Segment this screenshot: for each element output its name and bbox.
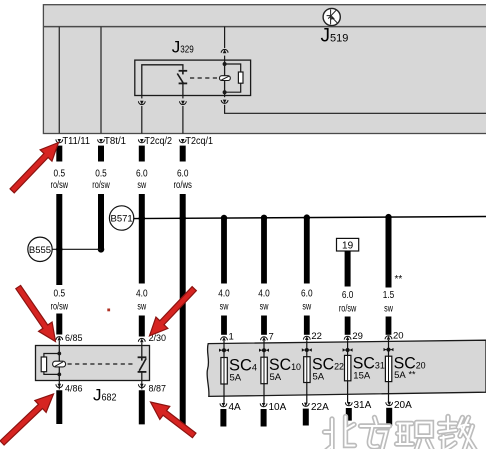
- fuse feed wire SC20: [383, 214, 395, 335]
- J682 coil branch: [41, 346, 61, 381]
- plug connection symbol (circle with arrow): [323, 8, 340, 25]
- red arrow at 4/86: [0, 388, 59, 449]
- svg-text:sw: sw: [137, 302, 146, 313]
- svg-text:4A: 4A: [229, 402, 242, 413]
- svg-text:6/85: 6/85: [65, 333, 83, 344]
- char jiao: [440, 417, 476, 449]
- svg-text:sw: sw: [260, 302, 269, 313]
- wire T2cq/1 long segment: [180, 194, 186, 425]
- svg-text:29: 29: [352, 331, 363, 342]
- char zhi: [397, 423, 433, 449]
- wire T2cq/1 upper segment: [180, 146, 186, 162]
- svg-text:sw: sw: [384, 304, 393, 315]
- fuse SC10: [259, 332, 301, 427]
- svg-text:5A: 5A: [230, 372, 242, 383]
- red arrow at 8/87: [146, 395, 200, 441]
- red arrow at 2/30: [144, 283, 201, 341]
- red dot mark: [107, 309, 110, 312]
- svg-text:ro/ws: ro/ws: [173, 180, 192, 191]
- node circle B555: [28, 237, 101, 261]
- svg-text:8/87: 8/87: [149, 384, 167, 395]
- svg-text:0.5: 0.5: [54, 169, 66, 180]
- connector T11/11: [56, 136, 90, 147]
- svg-text:B571: B571: [111, 214, 133, 225]
- wire to J682/2/30: [139, 316, 145, 337]
- char jiao: [440, 417, 476, 449]
- fuse SC31: [343, 331, 385, 421]
- wire T8t/1 lower segment: [98, 194, 104, 249]
- svg-text:4.0: 4.0: [136, 289, 148, 300]
- svg-text:T8t/1: T8t/1: [104, 136, 126, 147]
- svg-text:ro/sw: ro/sw: [92, 180, 110, 191]
- junction dot bus: [180, 215, 186, 221]
- svg-text:0.5: 0.5: [54, 289, 66, 300]
- J329 switch contact: [142, 65, 187, 96]
- connector T8t/1: [98, 136, 127, 147]
- svg-text:sw: sw: [137, 180, 146, 191]
- svg-text:**: **: [409, 370, 417, 380]
- fuse panel strip: [207, 340, 486, 396]
- fuse SC4: [219, 332, 257, 427]
- svg-text:15A: 15A: [353, 371, 371, 382]
- connector T2cq/2: [138, 136, 172, 147]
- svg-text:sw: sw: [302, 302, 311, 313]
- relay J682 box: [36, 346, 150, 381]
- svg-text:22A: 22A: [311, 402, 329, 413]
- svg-text:T2cq/2: T2cq/2: [145, 136, 173, 147]
- svg-text:6.0: 6.0: [136, 169, 148, 180]
- wire T11/11 middle segment: [56, 194, 62, 285]
- char fang: [361, 418, 390, 449]
- svg-text:31A: 31A: [354, 400, 372, 411]
- char zhi: [397, 423, 433, 449]
- svg-text:T11/11: T11/11: [63, 136, 91, 147]
- watermark bei fang zhi jiao: [325, 417, 476, 449]
- J329 terminal cups below box: [138, 96, 146, 134]
- svg-text:4.0: 4.0: [258, 289, 270, 300]
- char bei: [325, 417, 355, 449]
- svg-text:T2cq/1: T2cq/1: [186, 136, 214, 147]
- J682 terminal 4/86: [56, 381, 83, 395]
- fuse feed wire SC4: [218, 215, 230, 335]
- J329 resistor with parallel loop: [225, 64, 243, 92]
- power rail line inside J519: [43, 26, 486, 28]
- relay J329 box: [135, 60, 251, 95]
- fuse SC20: [384, 331, 426, 426]
- svg-text:ro/sw: ro/sw: [51, 180, 69, 191]
- svg-text:20: 20: [393, 331, 404, 342]
- svg-text:**: **: [395, 274, 403, 285]
- J329 coil feed wire: [223, 60, 227, 95]
- J682 switch contact: [138, 346, 147, 381]
- svg-text:22: 22: [311, 331, 322, 342]
- J682 actuation dashed line: [68, 363, 135, 365]
- fuse SC22: [302, 331, 344, 426]
- J329 output wire to right edge: [220, 96, 486, 114]
- svg-text:6.0: 6.0: [177, 169, 189, 180]
- fuse feed wire SC10: [258, 215, 270, 335]
- svg-text:5A: 5A: [313, 371, 325, 382]
- J682 terminal 2/30: [138, 333, 166, 346]
- fuse feed wire SC31: [339, 251, 357, 335]
- svg-text:ro/sw: ro/sw: [339, 304, 357, 315]
- junction dot B571 line: [139, 215, 145, 221]
- svg-text:0.5: 0.5: [95, 169, 107, 180]
- wire T2cq/2 middle segment: [139, 194, 145, 284]
- red arrow at T11/11: [6, 137, 64, 197]
- wire T2cq/2 upper segment: [139, 146, 145, 162]
- node circle B571: [109, 206, 133, 230]
- control unit J519 box: [43, 5, 486, 134]
- J329 coil (pill): [220, 76, 231, 81]
- red arrow at 6/85: [11, 282, 62, 346]
- svg-text:4.0: 4.0: [218, 289, 230, 300]
- J682 terminal 8/87: [138, 381, 166, 395]
- fuse 19 source box: [337, 238, 359, 251]
- bus line from B571 to right edge: [133, 217, 486, 219]
- svg-text:20A: 20A: [394, 400, 412, 411]
- svg-text:7: 7: [269, 332, 274, 343]
- wire to T8t/1 inside J519: [100, 27, 102, 134]
- J329 actuation dashed line: [190, 77, 220, 79]
- connector T2cq/1: [179, 136, 213, 147]
- junction dot wire B end: [98, 246, 105, 253]
- char bei: [325, 417, 355, 449]
- wire T11/11 upper segment: [56, 146, 62, 162]
- svg-text:10A: 10A: [269, 402, 287, 413]
- svg-text:19: 19: [342, 241, 354, 252]
- svg-text:sw: sw: [220, 302, 229, 313]
- wire below 4/86: [56, 390, 62, 424]
- svg-text:5A: 5A: [270, 372, 282, 383]
- wire to T11/11 inside J519: [58, 27, 60, 134]
- wire to J682/6/85: [56, 314, 62, 335]
- J682 terminal 6/85: [56, 333, 83, 346]
- svg-text:6.0: 6.0: [342, 290, 354, 301]
- J329 terminal cup above box: [220, 27, 228, 61]
- svg-text:6.0: 6.0: [301, 289, 313, 300]
- fuse feed wire SC22: [301, 214, 313, 334]
- svg-text:ro/sw: ro/sw: [51, 302, 69, 313]
- svg-text:4/86: 4/86: [65, 384, 83, 395]
- svg-text:1.5: 1.5: [383, 290, 395, 301]
- wire below 8/87: [139, 390, 145, 424]
- char fang: [361, 418, 390, 449]
- svg-text:B555: B555: [29, 245, 51, 256]
- wire T8t/1 upper segment: [98, 146, 104, 162]
- svg-text:1: 1: [229, 332, 234, 343]
- J682 coil pill: [53, 361, 66, 367]
- svg-text:5A: 5A: [394, 370, 406, 381]
